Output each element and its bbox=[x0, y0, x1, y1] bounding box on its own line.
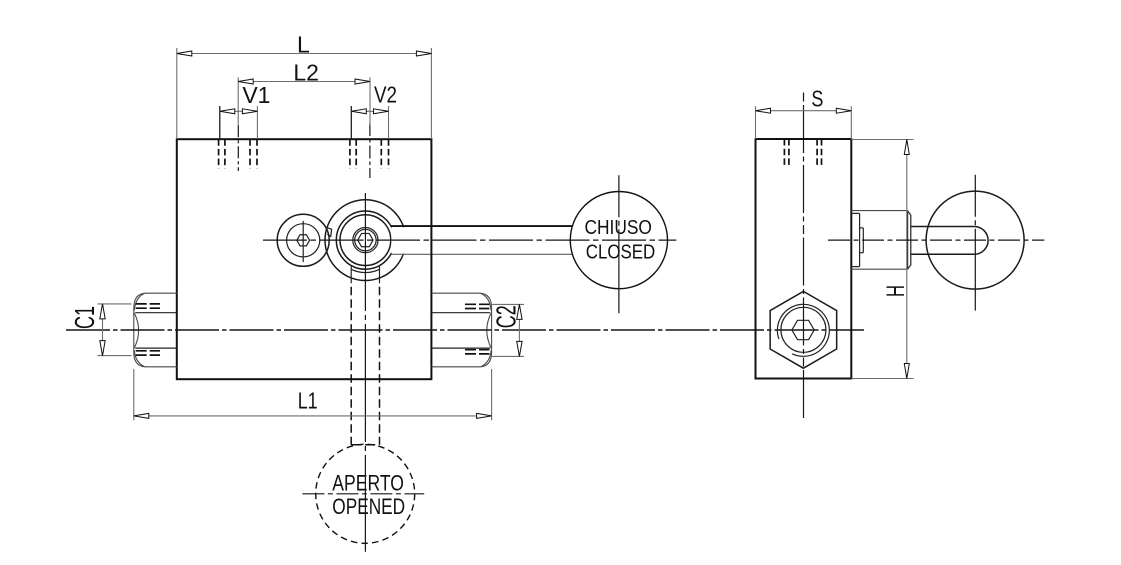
plug socket hex bbox=[792, 320, 814, 339]
dimension C1 line bbox=[102, 304, 104, 356]
left fitting bottom chamfer arc bbox=[134, 350, 144, 366]
valve body front view bbox=[177, 139, 432, 379]
dimension C2 extension lines bbox=[490, 303, 524, 305]
bottom plug hexagon bbox=[770, 291, 837, 368]
left port fitting outline bbox=[134, 293, 177, 367]
svg-text:L1: L1 bbox=[298, 388, 318, 414]
left fitting facet line lower bbox=[135, 347, 177, 349]
dimension L1 extension lines bbox=[133, 369, 135, 420]
dimension C1 extension lines bbox=[98, 303, 132, 305]
left fitting top chamfer arc bbox=[134, 293, 144, 310]
svg-text:L2: L2 bbox=[293, 60, 319, 86]
right fitting facet line upper bbox=[431, 312, 490, 314]
stem shoulder step bbox=[851, 212, 859, 214]
dimension V2 extension lines bbox=[350, 106, 352, 139]
dimension C2 arrows bbox=[517, 304, 522, 319]
V1 hole hidden walls bbox=[218, 139, 220, 168]
APERTO horizontal centerline bbox=[302, 493, 424, 495]
dimension S line bbox=[756, 110, 852, 112]
dimension L2 arrows bbox=[238, 79, 253, 84]
right fitting thread dashes bbox=[465, 303, 489, 305]
plug thread circle r26 (3/4 arc) bbox=[777, 304, 829, 356]
dimension H line bbox=[906, 140, 908, 379]
handle ball vertical centerline bbox=[974, 175, 976, 311]
lever stop tab bbox=[327, 227, 332, 236]
dimension V2 line bbox=[351, 110, 388, 112]
lock pad outer circle r26 bbox=[277, 214, 329, 266]
stem screw circle r12.6 bbox=[353, 228, 378, 253]
dimension V1 extension lines bbox=[219, 106, 221, 139]
valve body side view bbox=[756, 139, 852, 379]
stem hidden shaft left wall bbox=[350, 266, 352, 283]
lock pad vertical centerline bbox=[302, 221, 304, 262]
svg-text:CLOSED: CLOSED bbox=[586, 241, 655, 263]
svg-text:APERTO: APERTO bbox=[332, 470, 404, 495]
handle ball circle bbox=[926, 191, 1024, 289]
svg-text:CHIUSO: CHIUSO bbox=[584, 217, 652, 239]
dimension L extension lines bbox=[176, 48, 178, 139]
CHIUSO balloon circle bbox=[570, 192, 667, 289]
svg-text:V1: V1 bbox=[242, 82, 270, 108]
side stem horizontal centerline bbox=[828, 239, 1044, 241]
V2 hole hidden walls bbox=[349, 139, 351, 168]
dimension L line bbox=[177, 53, 432, 55]
lever shaft bottom line bbox=[911, 253, 974, 255]
svg-text:OPENED: OPENED bbox=[332, 494, 405, 519]
stem circle r29.1 bbox=[336, 211, 394, 269]
stem flange top edge bbox=[851, 210, 907, 212]
stem hidden shaft bottom chord bbox=[351, 444, 379, 446]
left fitting thread dashes bbox=[136, 303, 160, 305]
CHIUSO vertical centerline bbox=[618, 175, 620, 313]
dimension L2 line bbox=[238, 81, 370, 83]
dimension L1 line bbox=[134, 415, 492, 417]
stem screw circle r10.7 bbox=[355, 229, 376, 250]
lever shaft end cap bbox=[974, 227, 988, 255]
right port fitting outline bbox=[431, 293, 491, 367]
right fitting middle chamfer arc bbox=[487, 313, 491, 348]
stem hidden shaft right wall bbox=[379, 266, 381, 283]
stem hidden boss arc r32.3 bbox=[351, 269, 379, 272]
dimension C1 arrows bbox=[100, 304, 105, 319]
lever bar bottom edge bbox=[392, 253, 573, 255]
lever shaft top line bbox=[911, 226, 974, 228]
V2 hole centerline bbox=[369, 123, 371, 178]
dimension L1 arrows bbox=[134, 413, 149, 418]
lock pad inner circle r16.6 bbox=[287, 224, 320, 257]
left fitting facet line upper bbox=[135, 312, 177, 314]
svg-text:S: S bbox=[811, 86, 823, 112]
V1 hole centerline bbox=[237, 125, 239, 171]
dimension S extension lines bbox=[755, 106, 757, 139]
right fitting top chamfer arc bbox=[481, 293, 491, 310]
dimension L2 extension lines bbox=[237, 77, 239, 125]
stem circle r25.4 bbox=[340, 215, 391, 266]
stem flange inner edge bbox=[907, 211, 909, 270]
dimension L arrows bbox=[177, 51, 192, 56]
svg-text:V2: V2 bbox=[374, 82, 397, 108]
left fitting middle chamfer arc bbox=[134, 313, 138, 348]
stem outer circle r40.4 bbox=[325, 200, 406, 281]
right fitting facet line lower bbox=[431, 347, 490, 349]
lever bar top edge bbox=[391, 225, 572, 227]
dimension H extension lines bbox=[851, 139, 913, 141]
svg-text:L: L bbox=[297, 32, 310, 58]
dimension H arrows bbox=[904, 140, 909, 155]
dimension V2 arrows bbox=[351, 109, 366, 114]
APERTO balloon dashed circle bbox=[316, 444, 415, 543]
lock pad socket hex bbox=[297, 235, 310, 246]
side view vertical centerline bbox=[803, 93, 805, 420]
port axis centerline bbox=[66, 329, 864, 331]
dimension V1 arrows bbox=[220, 109, 235, 114]
dimension V1 line bbox=[220, 110, 258, 112]
lever bar mask bbox=[391, 227, 571, 253]
stem flange bottom edge bbox=[851, 268, 907, 270]
stem vertical centerline bbox=[364, 193, 366, 552]
stem flange right cap bbox=[908, 211, 911, 269]
svg-text:C1: C1 bbox=[69, 306, 100, 329]
plug chamfer circle r22.5 bbox=[781, 307, 826, 352]
side view hole hidden walls bbox=[783, 139, 785, 167]
stem socket hex bbox=[358, 233, 373, 246]
svg-text:C2: C2 bbox=[490, 305, 521, 328]
dimension S arrows bbox=[756, 108, 771, 113]
dimension C2 line bbox=[518, 304, 520, 356]
right fitting bottom chamfer arc bbox=[481, 350, 491, 366]
svg-text:H: H bbox=[883, 285, 910, 297]
stem horizontal centerline bbox=[263, 239, 676, 241]
